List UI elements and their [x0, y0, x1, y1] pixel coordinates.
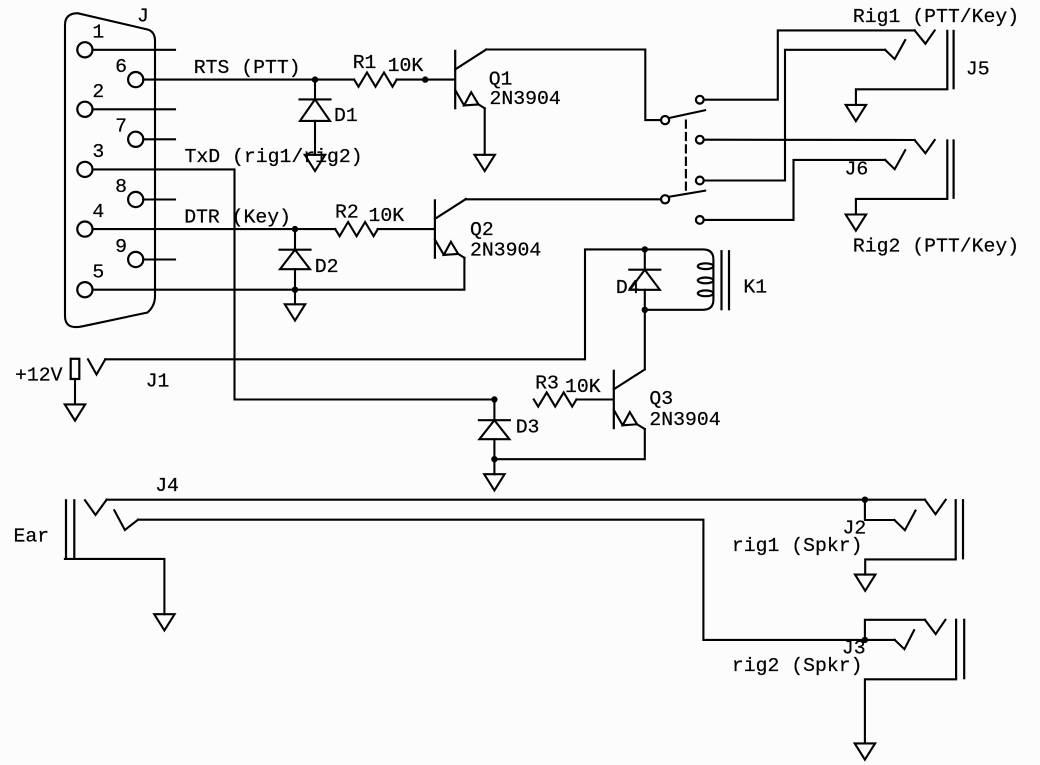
wire throw 3 to J5 ring — [704, 50, 885, 181]
transistor Q3 — [614, 369, 645, 429]
svg-text:rig1 (Spkr): rig1 (Spkr) — [732, 535, 863, 557]
svg-text:J6: J6 — [845, 159, 869, 181]
svg-text:2: 2 — [92, 81, 104, 103]
wire RTS pin6 to R1 — [143, 79, 354, 81]
svg-text:D4: D4 — [616, 277, 640, 299]
wire J2 tie down to ring — [865, 500, 895, 520]
jack J4 ring contact — [114, 510, 138, 530]
resistor R2 — [335, 222, 378, 236]
wire R1 to Q1 base — [397, 79, 455, 81]
switch throw 4 contact — [696, 216, 704, 224]
wire throw 4 to J6 ring — [704, 160, 885, 220]
switch throw 3 contact — [696, 177, 704, 185]
svg-text:2N3904: 2N3904 — [490, 88, 561, 110]
wire J4 sleeve to ground — [65, 559, 164, 614]
wire Q2 collector to switch pole 2 — [466, 198, 661, 200]
junction DTR/D2 — [292, 226, 298, 232]
jack J4 tip contact — [85, 500, 107, 515]
svg-text:6: 6 — [115, 56, 127, 78]
diode D3 — [479, 400, 510, 460]
ground below J5 — [846, 105, 866, 121]
junction TxD/D3/R3 — [491, 396, 497, 402]
svg-text:D2: D2 — [315, 256, 339, 278]
diode D1 — [300, 80, 331, 155]
relay K1 coil — [645, 249, 714, 309]
wire J4 ring to J3 ring — [138, 520, 895, 640]
wire J4 tip to J2 tip — [107, 499, 925, 501]
svg-text:Q2: Q2 — [470, 219, 494, 241]
svg-text:3: 3 — [92, 141, 104, 163]
ground below J3 — [855, 743, 875, 759]
switch throw 1 contact — [696, 96, 704, 104]
switch throw 2 contact — [696, 136, 704, 144]
jack J6 ring contact — [885, 150, 905, 169]
resistor R3 — [534, 392, 577, 406]
svg-text:J4: J4 — [155, 475, 179, 497]
svg-text:R2: R2 — [335, 202, 359, 224]
wire pin 2 stub — [93, 108, 176, 110]
junction D2/pin5 ground wire — [292, 287, 298, 293]
switch arm 2 — [669, 191, 705, 197]
wire throw 1 to J5 tip — [704, 30, 915, 99]
svg-text:7: 7 — [115, 116, 127, 138]
wire J5 sleeve to ground — [856, 89, 947, 105]
svg-text:4: 4 — [92, 201, 104, 223]
wire J3 tie up to tip — [865, 620, 925, 640]
ground below D1 — [305, 155, 325, 171]
svg-text:2N3904: 2N3904 — [470, 240, 541, 262]
svg-text:TxD (rig1/rig2): TxD (rig1/rig2) — [185, 146, 363, 168]
connector J pin 4 — [77, 201, 104, 237]
wire Q3 emitter to D3 junction — [494, 429, 644, 459]
ground below J2 — [855, 575, 875, 591]
wire R3 to Q3 base — [577, 398, 613, 400]
svg-text:9: 9 — [115, 236, 127, 258]
wire J6 sleeve to ground — [856, 199, 947, 215]
svg-text:DTR (Key): DTR (Key) — [184, 206, 291, 228]
wire K1 to Q3 collector — [644, 310, 646, 370]
connector J pin 5 — [77, 262, 104, 298]
wire J3 sleeve to ground — [865, 679, 956, 743]
wire pin 9 stub — [143, 258, 175, 260]
switch pole 1 contact — [661, 116, 669, 124]
svg-text:Q3: Q3 — [649, 388, 673, 410]
jack J4 sleeve bars — [66, 499, 74, 559]
svg-text:10K: 10K — [369, 205, 405, 227]
svg-text:10K: 10K — [565, 376, 601, 398]
transistor Q2 — [435, 199, 466, 259]
junction R1/Q1 — [422, 76, 428, 82]
svg-text:J: J — [137, 6, 149, 28]
jack J6 tip contact — [915, 140, 935, 153]
svg-text:rig2 (Spkr): rig2 (Spkr) — [732, 655, 863, 677]
power jack J1 body — [71, 359, 80, 379]
jack J3 ring contact — [895, 630, 914, 649]
relay K1 core bars — [722, 250, 730, 310]
wire pin 7 stub — [143, 138, 175, 140]
jack J2 ring contact — [894, 511, 915, 531]
junction RTS/D1 — [312, 76, 318, 82]
connector J DB9 outline — [65, 13, 155, 327]
svg-text:D1: D1 — [334, 105, 358, 127]
wire DTR pin 4 to R2 — [93, 228, 336, 230]
wire throw 2 to J6 tip — [704, 139, 915, 141]
jack J5 tip contact — [915, 30, 935, 43]
wire J2 sleeve to ground — [865, 559, 956, 574]
wire Q1 emitter to ground — [484, 108, 486, 155]
switch ganged link dashed line — [685, 121, 687, 194]
wire pin 5 ground run to Q2 emitter — [93, 258, 465, 290]
wire J1 body to ground — [74, 379, 76, 404]
resistor R1 — [354, 73, 397, 87]
connector J pin 6 — [115, 56, 143, 87]
switch pole 2 contact — [661, 195, 669, 203]
connector J pin 1 — [77, 22, 104, 58]
wire pin 1 stub — [93, 49, 176, 51]
transistor Q1 — [455, 50, 486, 110]
svg-text:R1: R1 — [353, 52, 377, 74]
junction J2 tip/ring tie — [862, 497, 868, 503]
connector J pin 3 — [77, 141, 104, 177]
junction +12V/D4/K1 top — [642, 246, 648, 252]
switch arm 1 — [669, 110, 705, 118]
wire D2 junction to ground — [294, 290, 296, 305]
svg-text:R3: R3 — [535, 372, 559, 394]
ground below J4 — [154, 614, 174, 630]
connector J pin 7 — [115, 116, 143, 147]
junction D3/Q3 emitter — [491, 456, 497, 462]
junction J3 tip/ring tie — [862, 637, 868, 643]
svg-text:RTS (PTT): RTS (PTT) — [194, 57, 301, 79]
svg-text:+12V: +12V — [15, 365, 63, 387]
svg-text:1: 1 — [92, 22, 104, 44]
junction D4/K1 bottom — [642, 307, 648, 313]
ground below D2 — [285, 304, 305, 320]
jack J3 tip contact — [925, 620, 946, 634]
jack J3 sleeve bars — [956, 619, 964, 680]
ground below D3 — [484, 474, 504, 490]
jack J2 sleeve bars — [956, 499, 963, 559]
wire TxD pin 3 to R3 — [93, 169, 495, 399]
svg-text:K1: K1 — [743, 277, 767, 299]
wire pin 8 stub — [143, 198, 175, 200]
wire +12V J1 to relay K1 — [105, 249, 645, 359]
ground below J6 — [846, 215, 866, 231]
jack J6 sleeve bars — [947, 139, 953, 199]
connector J pin 9 — [115, 236, 143, 267]
svg-text:D3: D3 — [516, 417, 540, 439]
svg-text:J5: J5 — [966, 59, 990, 81]
jack J2 tip contact — [925, 500, 946, 515]
jack J5 ring contact — [885, 40, 905, 59]
svg-text:Ear: Ear — [14, 526, 50, 548]
ground below Q1 — [475, 155, 495, 171]
diode D2 — [280, 229, 311, 290]
jack J5 sleeve bars — [947, 30, 953, 90]
svg-text:J1: J1 — [146, 370, 170, 392]
wire Q1 collector to switch pole 1 — [486, 50, 661, 121]
diode D4 — [629, 249, 660, 309]
svg-text:8: 8 — [115, 176, 127, 198]
svg-text:2N3904: 2N3904 — [649, 409, 720, 431]
svg-text:Rig1 (PTT/Key): Rig1 (PTT/Key) — [853, 6, 1019, 28]
svg-text:Rig2 (PTT/Key): Rig2 (PTT/Key) — [853, 236, 1019, 258]
svg-text:10K: 10K — [388, 55, 424, 77]
wire R2 to Q2 base — [378, 228, 434, 230]
wire D3 junction to ground — [493, 459, 495, 474]
ground below J1 — [65, 404, 85, 420]
connector J pin 8 — [115, 176, 143, 207]
svg-text:5: 5 — [92, 262, 104, 284]
jack J1 tip contact — [88, 359, 105, 374]
connector J pin 2 — [77, 81, 104, 117]
